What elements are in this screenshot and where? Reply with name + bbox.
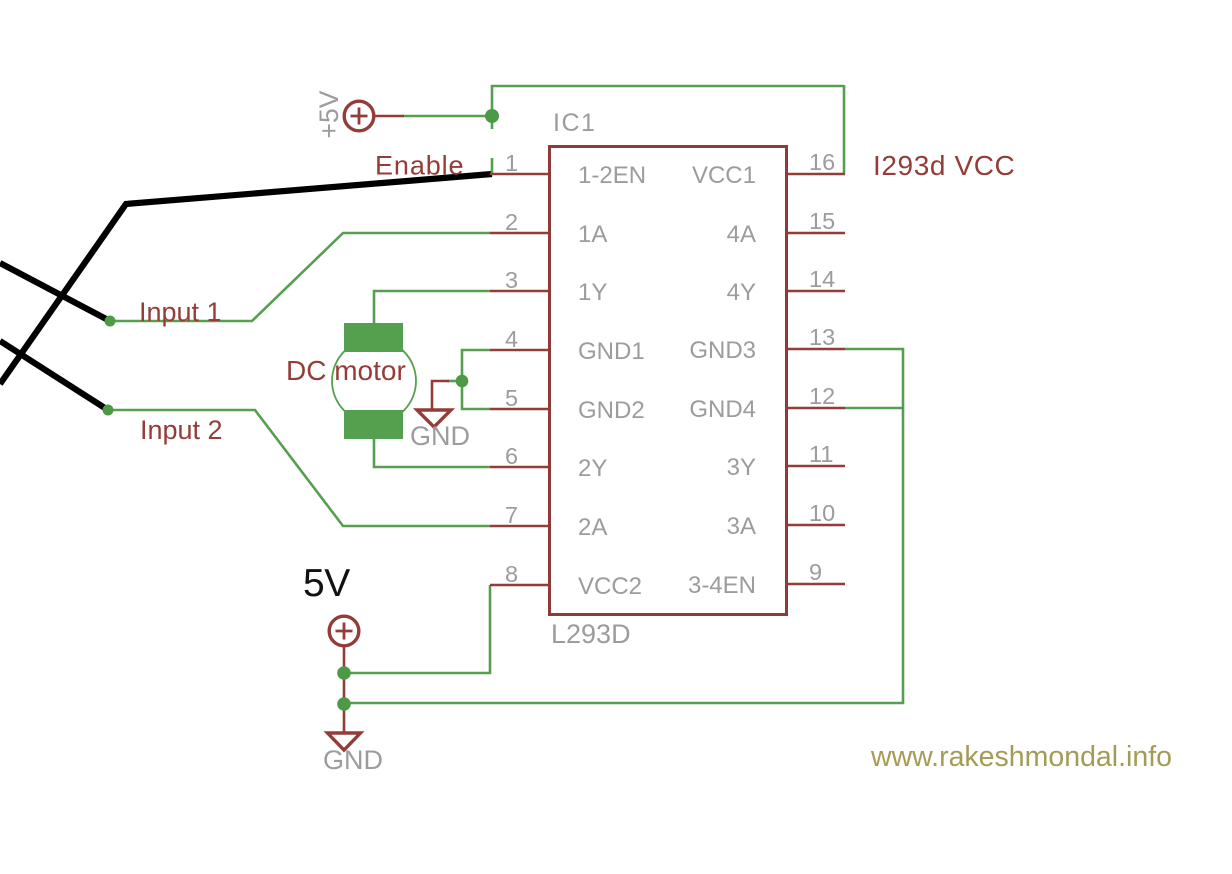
svg-text:8: 8 bbox=[505, 561, 518, 587]
junction: green dot pins4-5 GND tap bbox=[456, 375, 469, 388]
pin 14 line bbox=[787, 290, 845, 293]
wire: green VCC net top (+5V to pin 16) bbox=[403, 85, 844, 174]
svg-text:GND: GND bbox=[410, 421, 470, 451]
svg-text:5V: 5V bbox=[303, 562, 350, 605]
svg-text:2Y: 2Y bbox=[578, 455, 607, 482]
wire: green net pin 4 / pin 5 to GND bbox=[447, 350, 490, 409]
svg-text:9: 9 bbox=[809, 559, 822, 585]
svg-text:1Y: 1Y bbox=[578, 279, 607, 306]
svg-text:www.rakeshmondal.info: www.rakeshmondal.info bbox=[870, 741, 1172, 773]
svg-text:10: 10 bbox=[809, 500, 835, 526]
pins right side of IC bbox=[787, 174, 845, 584]
pin 10 line bbox=[787, 524, 845, 527]
pin names left column bbox=[578, 162, 646, 600]
pin 4 line bbox=[490, 349, 549, 352]
junction: green dot Input 2 bbox=[103, 405, 114, 416]
svg-text:Input 1: Input 1 bbox=[139, 297, 222, 327]
motor M1: DC motor symbol bbox=[332, 323, 416, 439]
svg-text:3-4EN: 3-4EN bbox=[688, 572, 756, 599]
svg-text:1: 1 bbox=[505, 150, 518, 176]
svg-text:3Y: 3Y bbox=[727, 454, 756, 481]
junction: green dot 5V net bbox=[337, 666, 351, 680]
junction: green dot GND net bbox=[337, 697, 351, 711]
svg-text:4A: 4A bbox=[727, 221, 756, 248]
svg-text:Enable: Enable bbox=[375, 151, 464, 181]
svg-text:I293d VCC: I293d VCC bbox=[873, 150, 1015, 181]
svg-text:11: 11 bbox=[809, 441, 833, 467]
svg-text:13: 13 bbox=[809, 324, 835, 350]
svg-text:16: 16 bbox=[809, 149, 835, 175]
wire: green net motor bottom to pin 6 bbox=[374, 438, 490, 467]
pin numbers right bbox=[809, 149, 835, 585]
svg-text:GND1: GND1 bbox=[578, 338, 645, 365]
svg-text:14: 14 bbox=[809, 266, 835, 292]
pin 1 line bbox=[490, 173, 549, 176]
ground: GND symbol near motor (pin + triangle) bbox=[417, 381, 451, 427]
power: 5V supply symbol bottom bbox=[329, 616, 359, 733]
wire: green bottom GND net to pins 12,13 bbox=[344, 349, 903, 703]
svg-text:7: 7 bbox=[505, 502, 518, 528]
svg-text:4: 4 bbox=[505, 326, 518, 352]
pin numbers left bbox=[505, 150, 518, 587]
pin 2 line bbox=[490, 232, 549, 235]
power: +5V supply symbol top left bbox=[344, 101, 404, 131]
svg-text:3: 3 bbox=[505, 267, 518, 293]
wire: black input line to Input 2 junction bbox=[0, 341, 108, 410]
svg-text:2A: 2A bbox=[578, 514, 607, 541]
wire: green net Input 2 to pin 7 bbox=[108, 410, 490, 526]
svg-text:Input 2: Input 2 bbox=[140, 415, 223, 445]
pin 9 line bbox=[787, 583, 845, 586]
svg-text:6: 6 bbox=[505, 443, 518, 469]
pin 16 line bbox=[787, 173, 845, 176]
pin 3 line bbox=[490, 290, 549, 293]
pin 5 line bbox=[490, 408, 549, 411]
IC U1: L293D body bbox=[550, 147, 787, 615]
pin 7 line bbox=[490, 525, 549, 528]
wire: black enable net from pin 1 to left edge bbox=[0, 174, 492, 384]
svg-text:GND2: GND2 bbox=[578, 397, 645, 424]
svg-text:L293D: L293D bbox=[551, 619, 631, 649]
svg-text:15: 15 bbox=[809, 208, 835, 234]
pin 11 line bbox=[787, 465, 845, 468]
svg-text:2: 2 bbox=[505, 209, 518, 235]
pin 15 line bbox=[787, 232, 845, 235]
svg-text:1-2EN: 1-2EN bbox=[578, 162, 646, 189]
pin 6 line bbox=[490, 466, 549, 469]
svg-text:GND: GND bbox=[323, 745, 383, 775]
pin 13 line bbox=[787, 348, 845, 351]
svg-text:1A: 1A bbox=[578, 221, 607, 248]
wire: green net Input 1 to pin 2 bbox=[110, 233, 490, 321]
svg-text:VCC1: VCC1 bbox=[692, 162, 756, 189]
svg-text:+5V: +5V bbox=[314, 90, 344, 138]
pin 12 line bbox=[787, 407, 845, 410]
svg-text:IC1: IC1 bbox=[553, 109, 596, 137]
pin names right column bbox=[688, 162, 756, 599]
junction: green dot Input 1 bbox=[105, 316, 116, 327]
wire: green net pin 3 to motor top bbox=[374, 291, 490, 324]
svg-text:12: 12 bbox=[809, 383, 835, 409]
wire: green net 5V to pin 8 bbox=[344, 585, 490, 673]
ground: GND symbol bottom bbox=[328, 733, 361, 750]
svg-text:5: 5 bbox=[505, 385, 518, 411]
svg-text:3A: 3A bbox=[727, 513, 756, 540]
wire: black input line to Input 1 junction bbox=[0, 263, 110, 321]
svg-text:GND3: GND3 bbox=[689, 337, 756, 364]
pin 8 line bbox=[490, 584, 549, 587]
svg-text:VCC2: VCC2 bbox=[578, 573, 642, 600]
junction: green dot at +5V tap bbox=[485, 109, 499, 123]
pins left side of IC bbox=[490, 174, 549, 585]
svg-text:GND4: GND4 bbox=[689, 396, 756, 423]
svg-text:4Y: 4Y bbox=[727, 279, 756, 306]
svg-text:DC motor: DC motor bbox=[286, 355, 406, 386]
